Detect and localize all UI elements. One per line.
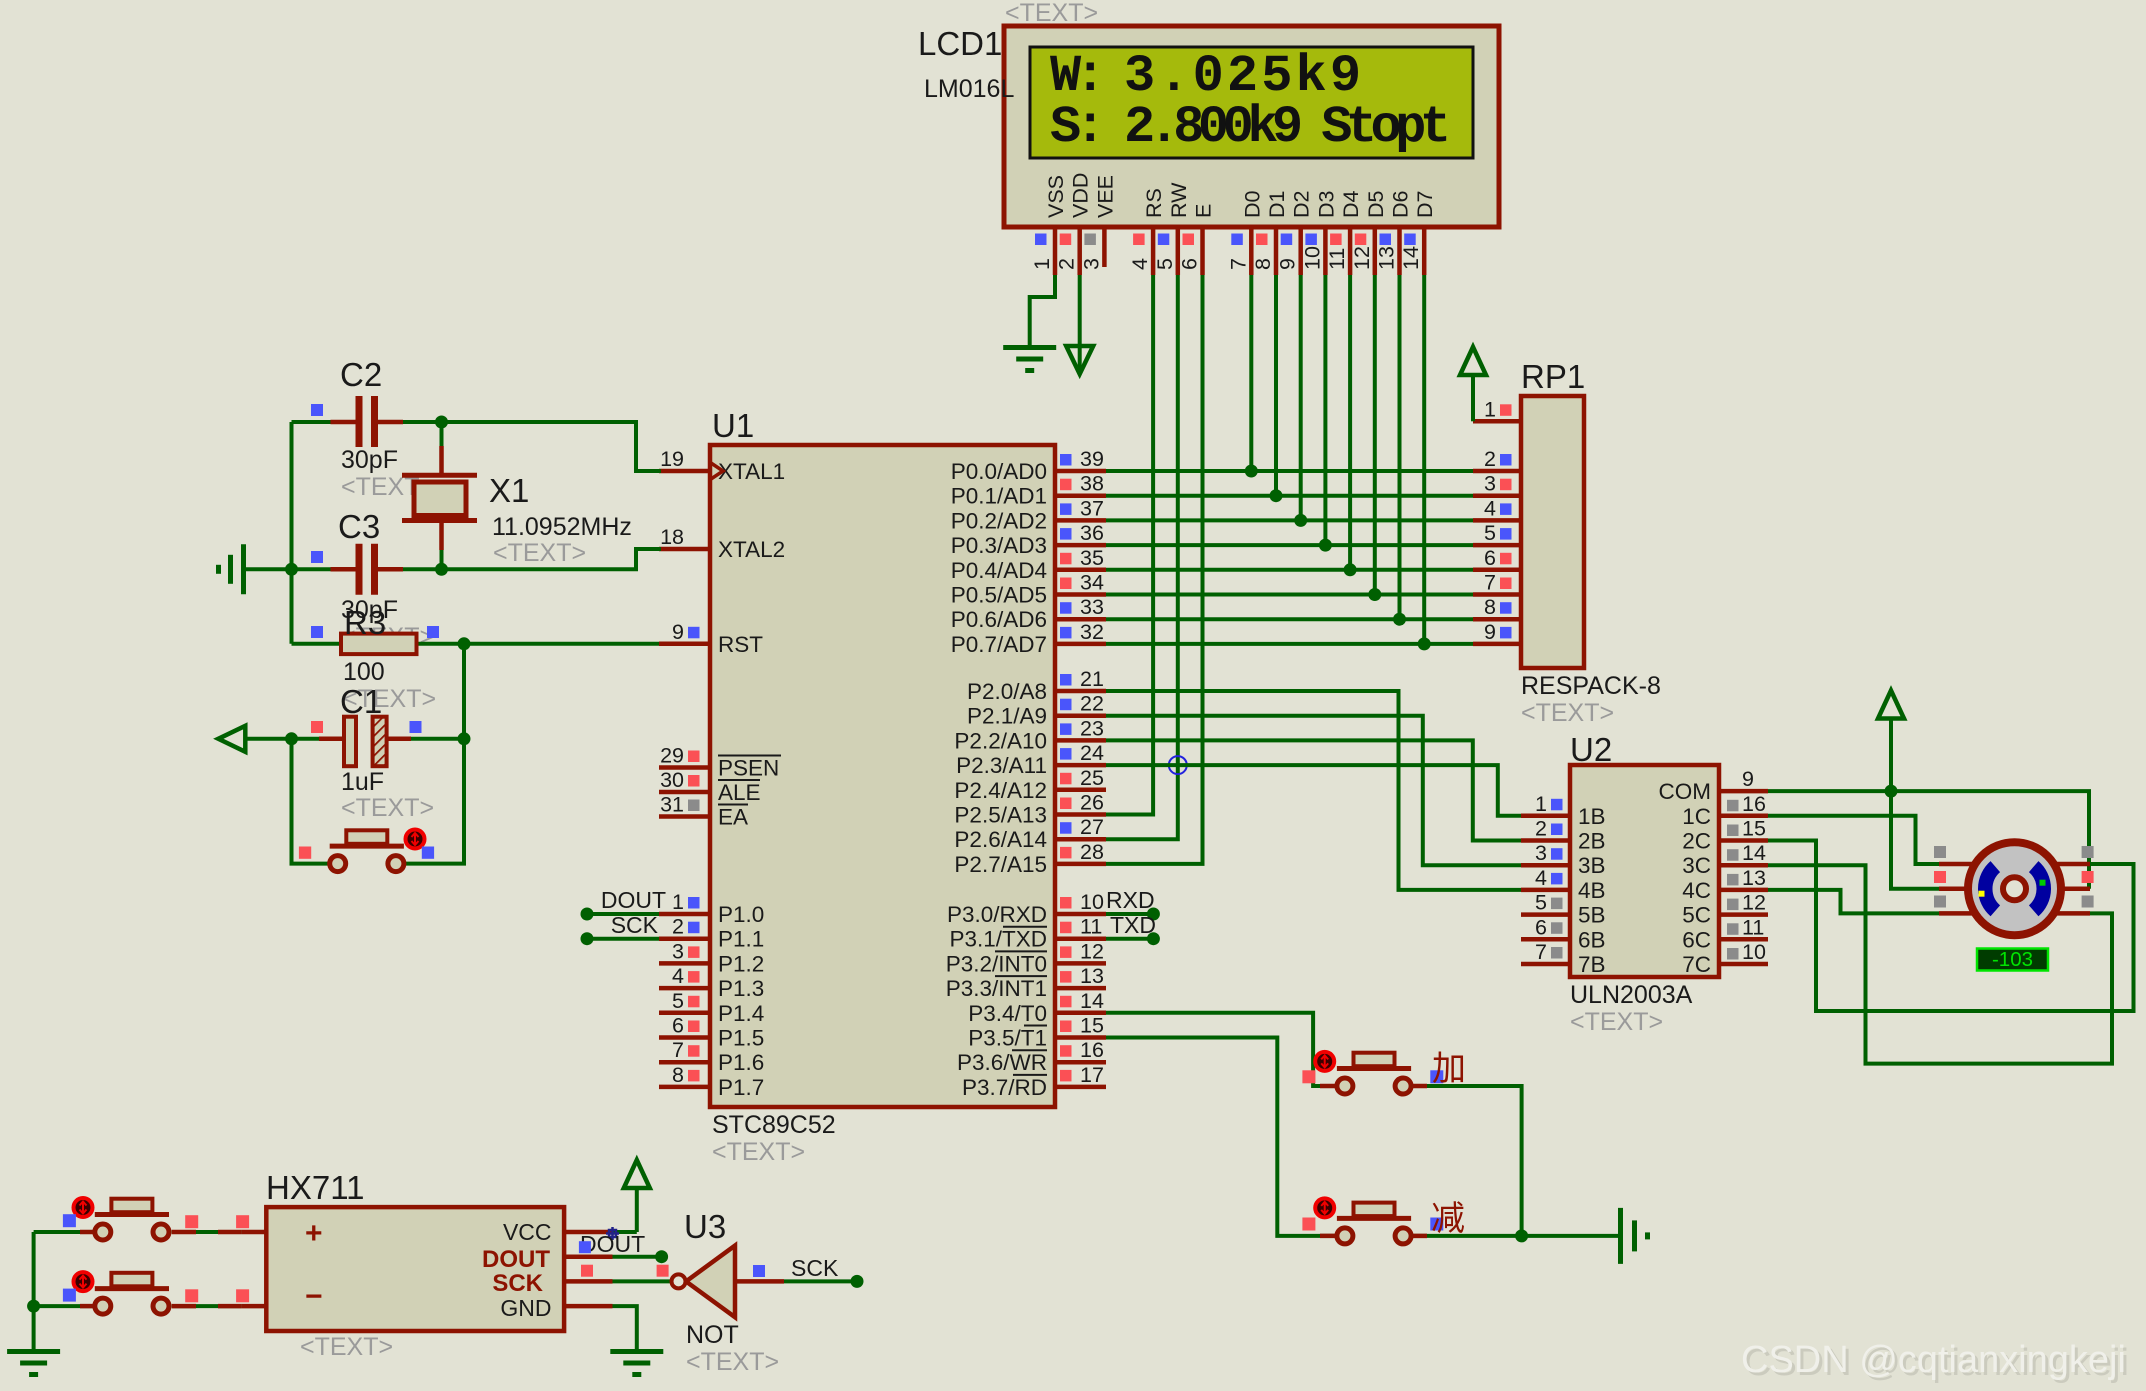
svg-text:30pF: 30pF — [341, 446, 398, 474]
svg-text:1B: 1B — [1578, 804, 1606, 829]
junction D0/P0.0 — [1245, 465, 1258, 478]
svg-text:16: 16 — [1080, 1038, 1104, 1062]
svg-text:LCD1: LCD1 — [918, 25, 1002, 62]
wire button B to HX711 - — [172, 1304, 242, 1308]
U1 pin 31 (EA) stub and label — [659, 814, 710, 819]
RP1 pin 1 stub — [1473, 419, 1521, 424]
wire R3 node to U1 RST pin 9 — [464, 642, 659, 646]
wire U2 2C to motor right top pin — [1768, 841, 2134, 1012]
svg-text:<TEXT>: <TEXT> — [1005, 0, 1098, 27]
wire add button to ground node — [1411, 1086, 1521, 1236]
svg-text:+: + — [305, 1217, 323, 1250]
U1 pin 29 (PSEN) stub and label — [659, 765, 710, 770]
svg-text:16: 16 — [1742, 792, 1766, 816]
svg-text:37: 37 — [1080, 496, 1104, 520]
svg-text:P3.2/INT0: P3.2/INT0 — [946, 951, 1047, 976]
svg-text:COM: COM — [1659, 779, 1712, 804]
svg-text:11: 11 — [1080, 915, 1102, 939]
svg-text:3B: 3B — [1578, 853, 1606, 878]
svg-text:4: 4 — [1128, 258, 1152, 270]
HX711 right pin stub — [564, 1279, 612, 1284]
reset button state squares — [299, 847, 311, 859]
HX711 right pin stub — [564, 1230, 612, 1235]
svg-text:P1.6: P1.6 — [718, 1050, 764, 1075]
svg-text:12: 12 — [1742, 891, 1766, 915]
LCD1 pin 14 (D7) — [1422, 227, 1427, 275]
RP1 pin 3 stub — [1473, 493, 1521, 498]
svg-text:2: 2 — [1484, 447, 1496, 471]
svg-text:8: 8 — [1484, 595, 1496, 619]
U3 input stub and SCK net wire — [735, 1279, 784, 1284]
LCD1 pin 11 (D4) — [1348, 227, 1353, 275]
svg-text:13: 13 — [1742, 866, 1766, 890]
svg-text:10: 10 — [1080, 890, 1104, 914]
svg-text:4: 4 — [1535, 866, 1547, 890]
U1 pin 19 (XTAL1) stub and label — [659, 469, 710, 474]
svg-text:2C: 2C — [1682, 829, 1711, 854]
svg-text:C1: C1 — [340, 683, 382, 720]
svg-text:P2.1/A9: P2.1/A9 — [967, 704, 1047, 729]
svg-text:P0.2/AD2: P0.2/AD2 — [951, 508, 1047, 533]
svg-text:LM016L: LM016L — [924, 75, 1014, 103]
C3 state square — [311, 551, 323, 563]
wire U1 P2.2 to U2 2B — [1106, 740, 1521, 840]
U1 pin 7 (P1.6) stub and label — [659, 1060, 710, 1065]
wire U2 COM to +V and motor — [1768, 789, 1891, 793]
wire LCD D1 down to P0.1 row — [1274, 275, 1278, 496]
svg-text:VSS: VSS — [1044, 175, 1068, 218]
load-cell button B (lower) — [95, 1286, 169, 1291]
U1 XTAL1 clock chevron — [711, 463, 723, 479]
wire U2 3C to motor right bottom pin — [1768, 865, 2112, 1063]
button A state square — [63, 1214, 76, 1227]
junction left rail at lower button — [27, 1300, 40, 1313]
U1 pin 2 (P1.1) stub and label — [659, 936, 710, 941]
svg-text:13: 13 — [1375, 246, 1399, 270]
svg-text:8: 8 — [672, 1063, 684, 1087]
svg-text:DOUT: DOUT — [482, 1246, 550, 1273]
svg-text:4: 4 — [1484, 496, 1496, 520]
svg-text:33: 33 — [1080, 595, 1104, 619]
wire U1 P0.1 to RP1 pin 3 — [1106, 494, 1473, 498]
svg-text:1: 1 — [1484, 397, 1496, 421]
U1 pin 5 (P1.4) stub and label — [659, 1011, 710, 1016]
junction rail/C3 node — [285, 563, 298, 576]
svg-text:5: 5 — [1484, 521, 1496, 545]
svg-text:<TEXT>: <TEXT> — [712, 1138, 805, 1166]
HX711 right pin stub — [564, 1254, 612, 1259]
wire U1 P0.0 to RP1 pin 2 — [1106, 469, 1473, 473]
svg-text:4B: 4B — [1578, 878, 1606, 903]
svg-text:3: 3 — [672, 939, 684, 963]
U2 pin 12 (5C) stub — [1719, 912, 1768, 917]
wire ground node to right ground — [1522, 1234, 1621, 1238]
svg-text:P1.5: P1.5 — [718, 1026, 764, 1051]
add push button (jia) — [1337, 1066, 1411, 1071]
U1 pin 3 (P1.2) stub and label — [659, 961, 710, 966]
wire sub button to ground node — [1411, 1234, 1521, 1238]
U2 pin 7 (7B) stub — [1521, 962, 1570, 967]
U1 pin 15 (P3.5/T1) stub and label — [1055, 1035, 1106, 1040]
svg-text:STC89C52: STC89C52 — [712, 1111, 836, 1139]
U1 pin 10 (P3.0/RXD) stub and label — [1055, 912, 1106, 917]
junction D5/P0.5 — [1368, 588, 1381, 601]
svg-text:100: 100 — [343, 658, 385, 686]
svg-text:P1.0: P1.0 — [718, 902, 764, 927]
svg-text:PSEN: PSEN — [718, 756, 779, 781]
svg-text:S: 2.800k9 Stopt: S: 2.800k9 Stopt — [1050, 98, 1447, 157]
wire LCD D5 down to P0.5 row — [1373, 275, 1377, 595]
svg-text:P0.4/AD4: P0.4/AD4 — [951, 558, 1047, 583]
power terminal left of C1 — [218, 726, 245, 752]
SCK net state square — [753, 1265, 765, 1277]
LCD1 pin 7 (D0) — [1249, 227, 1254, 275]
svg-text:9: 9 — [1276, 258, 1300, 270]
svg-text:<TEXT>: <TEXT> — [1521, 699, 1614, 727]
svg-text:1C: 1C — [1682, 804, 1711, 829]
svg-text:34: 34 — [1080, 571, 1104, 595]
HX711 left pin stubs — [242, 1230, 267, 1235]
U1 pin 33 (P0.6/AD6) stub and label — [1055, 617, 1106, 622]
svg-text:CSDN @cqtianxingkeji: CSDN @cqtianxingkeji — [1741, 1339, 2126, 1381]
U1 pin 28 (P2.7/A15) stub and label — [1055, 862, 1106, 867]
LCD1 pin 10 (D3) — [1323, 227, 1328, 275]
U1 pin 35 (P0.4/AD4) stub and label — [1055, 568, 1106, 573]
svg-text:38: 38 — [1080, 472, 1104, 496]
svg-text:1uF: 1uF — [341, 768, 384, 796]
svg-text:P2.0/A8: P2.0/A8 — [967, 679, 1047, 704]
power terminal above motor common — [1889, 719, 1893, 792]
wire LCD RS down to U1 P2.5 — [1106, 275, 1153, 815]
svg-text:2: 2 — [672, 915, 684, 939]
wire button A to HX711 + — [172, 1230, 242, 1234]
svg-text:6B: 6B — [1578, 927, 1606, 952]
stepper motor position readout -103 — [1977, 949, 2048, 971]
button B interactive marker — [74, 1272, 93, 1291]
U1 pin 8 (P1.7) stub and label — [659, 1085, 710, 1090]
U1 pin 37 (P0.2/AD2) stub and label — [1055, 518, 1106, 523]
origin cross marker on VCC net — [606, 1227, 619, 1240]
wire LCD D4 down to P0.4 row — [1348, 275, 1352, 570]
svg-text:2: 2 — [1535, 817, 1547, 841]
svg-text:RP1: RP1 — [1521, 358, 1585, 395]
inverter U3 NOT gate (mirrored) — [686, 1246, 735, 1318]
wire COM node down to motor left centre pin — [1891, 791, 1939, 889]
svg-text:P0.0/AD0: P0.0/AD0 — [951, 459, 1047, 484]
svg-text:7: 7 — [1226, 258, 1250, 270]
svg-text:4: 4 — [672, 964, 684, 988]
LCD1 pin 8 (D1) — [1274, 227, 1279, 275]
power terminal above RP1 pin 1 — [1471, 375, 1475, 421]
svg-text:25: 25 — [1080, 766, 1104, 790]
svg-text:35: 35 — [1080, 546, 1104, 570]
svg-text:21: 21 — [1080, 667, 1104, 691]
svg-text:RXD: RXD — [1106, 887, 1155, 913]
svg-text:5: 5 — [672, 989, 684, 1013]
svg-text:X1: X1 — [489, 472, 529, 509]
U1 pin 13 (P3.3/INT1) stub and label — [1055, 986, 1106, 991]
svg-text:14: 14 — [1742, 841, 1766, 865]
button A interactive marker — [74, 1198, 93, 1217]
wire U1 P2.1 to U2 3B — [1106, 716, 1521, 866]
svg-text:P2.2/A10: P2.2/A10 — [954, 728, 1047, 753]
svg-text:加: 加 — [1432, 1050, 1466, 1088]
U1 pin 25 (P2.4/A12) stub and label — [1055, 788, 1106, 793]
svg-text:4C: 4C — [1682, 878, 1711, 903]
svg-text:U2: U2 — [1570, 731, 1612, 768]
svg-text:14: 14 — [1080, 989, 1104, 1013]
svg-text:−: − — [305, 1280, 323, 1313]
svg-text:3C: 3C — [1682, 853, 1711, 878]
svg-text:14: 14 — [1399, 246, 1423, 270]
junction C3/X1 node — [435, 563, 448, 576]
svg-text:13: 13 — [1080, 964, 1104, 988]
svg-text:RW: RW — [1167, 182, 1191, 218]
svg-text:6: 6 — [672, 1014, 684, 1038]
svg-text:3: 3 — [1079, 258, 1103, 270]
svg-text:9: 9 — [1484, 620, 1496, 644]
U1 pin 11 (P3.1/TXD) stub and label — [1055, 936, 1106, 941]
junction C1 left node — [285, 732, 298, 745]
wire LCD D6 down to P0.6 row — [1398, 275, 1402, 619]
U1 pin 6 (P1.5) stub and label — [659, 1035, 710, 1040]
resistor pack RP1 body — [1521, 396, 1584, 668]
U1 pin 24 (P2.3/A11) stub and label — [1055, 763, 1106, 768]
RP1 pin 8 stub — [1473, 617, 1521, 622]
svg-text:P3.4/T0: P3.4/T0 — [968, 1001, 1047, 1026]
svg-text:5B: 5B — [1578, 903, 1606, 928]
wire LCD D3 down to P0.3 row — [1323, 275, 1327, 545]
net label SCK on U1 P1.1 wire — [587, 937, 659, 941]
junction D4/P0.4 — [1344, 563, 1357, 576]
U1 pin 22 (P2.1/A9) stub and label — [1055, 713, 1106, 718]
U2 pin 9 (COM) stub — [1719, 789, 1768, 794]
power-down terminal on LCD pin 2 VDD — [1078, 275, 1082, 346]
RP1 pin 5 stub — [1473, 543, 1521, 548]
svg-text:15: 15 — [1080, 1014, 1104, 1038]
op U1 microcontroller STC89C52 body — [710, 445, 1055, 1107]
U1 pin 1 (P1.0) stub and label — [659, 912, 710, 917]
U1 pin 26 (P2.5/A13) stub and label — [1055, 812, 1106, 817]
svg-text:D6: D6 — [1389, 190, 1413, 218]
U1 pin 17 (P3.7/RD) stub and label — [1055, 1085, 1106, 1090]
junction C2/X1 node — [435, 416, 448, 429]
svg-text:18: 18 — [660, 525, 684, 549]
add button interactive marker — [1315, 1052, 1334, 1071]
svg-text:6: 6 — [1484, 546, 1496, 570]
button B state square — [63, 1289, 76, 1302]
svg-text:7: 7 — [672, 1038, 684, 1062]
svg-text:HX711: HX711 — [266, 1169, 364, 1206]
svg-text:24: 24 — [1080, 741, 1104, 765]
svg-text:22: 22 — [1080, 692, 1104, 716]
svg-text:1: 1 — [1535, 792, 1547, 816]
wire HX711 GND to ground — [613, 1306, 637, 1351]
junction D1/P0.1 — [1270, 489, 1283, 502]
svg-text:11: 11 — [1742, 915, 1764, 939]
U1 pin 23 (P2.2/A10) stub and label — [1055, 738, 1106, 743]
svg-text:19: 19 — [660, 447, 684, 471]
svg-text:27: 27 — [1080, 815, 1104, 839]
svg-text:U3: U3 — [684, 1208, 726, 1245]
wire LCD D7 down to P0.7 row — [1422, 275, 1426, 644]
reset button interactive marker — [406, 830, 425, 849]
svg-text:32: 32 — [1080, 620, 1104, 644]
svg-text:15: 15 — [1742, 817, 1766, 841]
U1 pin 39 (P0.0/AD0) stub and label — [1055, 469, 1106, 474]
svg-text:P1.3: P1.3 — [718, 976, 764, 1001]
svg-text:P1.7: P1.7 — [718, 1075, 764, 1100]
svg-text:P2.7/A15: P2.7/A15 — [954, 852, 1047, 877]
junction D2/P0.2 — [1294, 514, 1307, 527]
wire LCD E down to U1 P2.7 — [1106, 275, 1203, 864]
svg-text:P1.2: P1.2 — [718, 951, 764, 976]
button A wire state squares — [185, 1215, 198, 1228]
wire R3 node down to C1 node — [462, 644, 466, 739]
U1 pin 14 (P3.4/T0) stub and label — [1055, 1011, 1106, 1016]
svg-text:9: 9 — [1742, 767, 1754, 791]
svg-text:<TEXT>: <TEXT> — [300, 1333, 393, 1361]
svg-text:RST: RST — [718, 632, 763, 657]
junction buttons ground node — [1515, 1229, 1528, 1242]
U2 pin 11 (6C) stub — [1719, 937, 1768, 942]
svg-text:R3: R3 — [344, 604, 386, 641]
driver U2 ULN2003A body — [1570, 765, 1719, 977]
svg-text:D2: D2 — [1290, 191, 1314, 218]
RP1 pin 9 stub — [1473, 642, 1521, 647]
svg-text:EA: EA — [718, 805, 748, 830]
RP1 pin 7 stub — [1473, 592, 1521, 597]
svg-text:D1: D1 — [1265, 191, 1289, 218]
reset push button — [330, 844, 404, 849]
svg-text:D7: D7 — [1413, 191, 1437, 218]
U1 pin 34 (P0.5/AD5) stub and label — [1055, 592, 1106, 597]
stepper motor coils — [1985, 867, 1995, 911]
svg-text:6: 6 — [1535, 915, 1547, 939]
svg-text:DOUT: DOUT — [601, 887, 666, 913]
RP1 pin 6 stub — [1473, 568, 1521, 573]
U1 pin 36 (P0.3/AD3) stub and label — [1055, 543, 1106, 548]
net label RXD on U1 P3.0 wire — [1106, 912, 1153, 916]
svg-text:P3.1/TXD: P3.1/TXD — [949, 927, 1047, 952]
wire U2 4C to motor left bottom pin — [1768, 890, 1939, 914]
junction R3/RST node — [458, 637, 471, 650]
LCD1 pin 6 (E) — [1200, 227, 1205, 275]
svg-text:RS: RS — [1142, 188, 1166, 218]
svg-text:D3: D3 — [1314, 190, 1338, 218]
svg-text:P0.1/AD1: P0.1/AD1 — [951, 484, 1047, 509]
svg-text:5: 5 — [1153, 258, 1177, 270]
add button state squares — [1302, 1070, 1315, 1083]
svg-text:P2.6/A14: P2.6/A14 — [954, 827, 1047, 852]
U2 pin 6 (6B) stub — [1521, 937, 1570, 942]
LCD1 screen — [1030, 47, 1473, 158]
U2 pin 1 (1B) stub — [1521, 814, 1570, 819]
svg-text:29: 29 — [660, 744, 684, 768]
ground symbol left of C3 — [241, 544, 246, 594]
svg-text:30: 30 — [660, 768, 684, 792]
svg-text:P2.5/A13: P2.5/A13 — [954, 803, 1047, 828]
wire U1 P0.2 to RP1 pin 4 — [1106, 518, 1473, 522]
svg-text:P2.4/A12: P2.4/A12 — [954, 778, 1047, 803]
junction at COM node — [1885, 785, 1898, 798]
svg-text:12: 12 — [1350, 246, 1374, 270]
capacitor C3 — [246, 567, 292, 571]
wire LCD RW down to U1 P2.6 — [1106, 275, 1178, 839]
wire left rail C2/C3/R3 — [290, 422, 294, 644]
junction D3/P0.3 — [1319, 539, 1332, 552]
U2 pin 16 (1C) stub — [1719, 814, 1768, 819]
svg-text:P3.0/RXD: P3.0/RXD — [947, 902, 1047, 927]
wire U1 P0.3 to RP1 pin 5 — [1106, 543, 1473, 547]
ground symbol below LCD pin 1 — [1003, 345, 1056, 350]
svg-text:XTAL2: XTAL2 — [718, 537, 785, 562]
crystal X1 — [440, 422, 444, 446]
ground symbol right of buttons — [1618, 1208, 1623, 1264]
stepper motor state squares — [1934, 846, 1946, 858]
svg-text:5: 5 — [1535, 891, 1547, 915]
wire C1 node down to reset button — [404, 739, 464, 864]
ground symbol bottom left — [7, 1349, 60, 1354]
svg-text:6: 6 — [1178, 258, 1202, 270]
wire HX711 SCK to U3 output bubble — [613, 1279, 672, 1283]
wire C2 node to U1 XTAL1 pin 19 — [442, 422, 662, 471]
svg-text:P3.5/T1: P3.5/T1 — [968, 1026, 1047, 1051]
svg-text:D5: D5 — [1364, 190, 1388, 218]
svg-text:SCK: SCK — [492, 1270, 543, 1297]
svg-text:5C: 5C — [1682, 903, 1711, 928]
LCD1 pin 13 (D6) — [1397, 227, 1402, 275]
svg-text:8: 8 — [1251, 258, 1275, 270]
svg-text:3: 3 — [1535, 841, 1547, 865]
U2 pin 4 (4B) stub — [1521, 888, 1570, 893]
LCD1 pin 5 (RW) — [1176, 227, 1181, 275]
hover highlight circle on P2.3 net — [1169, 756, 1187, 774]
U2 pin 14 (3C) stub — [1719, 863, 1768, 868]
svg-text:P0.6/AD6: P0.6/AD6 — [951, 607, 1047, 632]
U1 pin 18 (XTAL2) stub and label — [659, 547, 710, 552]
R3 state squares — [311, 626, 323, 638]
svg-text:<TEXT>: <TEXT> — [686, 1348, 779, 1376]
SCK net state squares — [581, 1265, 593, 1277]
U1 pin 21 (P2.0/A8) stub and label — [1055, 689, 1106, 694]
svg-text:RESPACK-8: RESPACK-8 — [1521, 672, 1661, 700]
wire HX711 DOUT net with end dot — [613, 1255, 662, 1259]
svg-text:7: 7 — [1535, 940, 1547, 964]
svg-text:TXD: TXD — [1110, 912, 1156, 938]
svg-text:SCK: SCK — [611, 912, 659, 938]
RP1 pin 4 stub — [1473, 518, 1521, 523]
svg-text:P3.7/RD: P3.7/RD — [962, 1075, 1047, 1100]
svg-text:1: 1 — [672, 890, 684, 914]
svg-text:减: 减 — [1431, 1200, 1465, 1238]
junction D7/P0.7 — [1418, 637, 1431, 650]
wire LCD D2 down to P0.2 row — [1299, 275, 1303, 520]
LCD1 pin 3 (VEE) — [1102, 227, 1107, 267]
wire U1 P3.5/T1 to sub button — [1106, 1038, 1336, 1236]
wire COM node right and down to motor right centre pin — [1891, 791, 2089, 889]
svg-text:3: 3 — [1484, 472, 1496, 496]
HX711 load-cell module body — [266, 1207, 564, 1331]
junction C1 right node — [458, 732, 471, 745]
svg-text:U1: U1 — [712, 407, 754, 444]
wire U1 P0.4 to RP1 pin 6 — [1106, 568, 1473, 572]
svg-text:11.0952MHz: 11.0952MHz — [492, 513, 632, 541]
U2 pin 10 (7C) stub — [1719, 962, 1768, 967]
svg-text:36: 36 — [1080, 521, 1104, 545]
net label DOUT on U1 P1.0 wire — [587, 912, 659, 916]
svg-text:7C: 7C — [1682, 952, 1711, 977]
